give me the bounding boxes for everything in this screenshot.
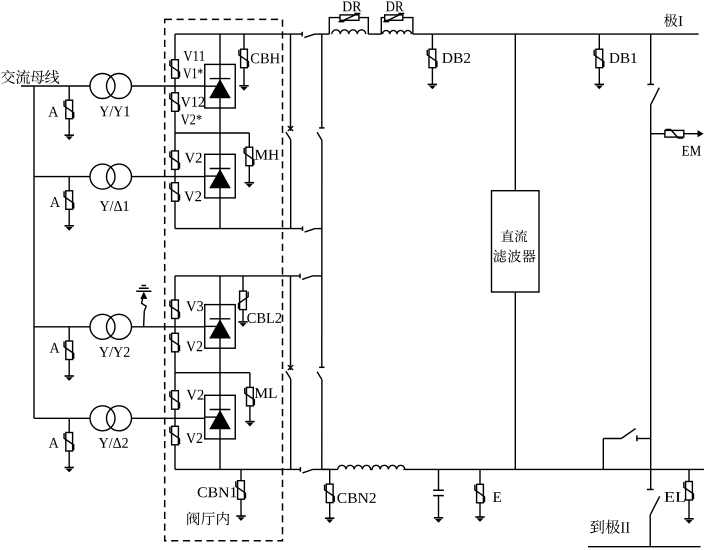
disconnector w/ star (bypass A, group2) [286,364,293,379]
arrester V2 (upper g1) [170,151,180,170]
wire column to V11 [174,34,176,60]
ground (A row 1) [65,135,74,140]
label DR2 [386,2,404,12]
arrester CBN2 [325,484,335,503]
label A row3 [50,343,60,353]
text 到极 [590,520,620,534]
disconnector (bypass branch) [621,429,637,442]
wire V3-V2 (row3 junction) [174,319,176,334]
label CBN2 [337,493,375,503]
ground (DB2) [428,84,437,89]
label ML [255,388,277,398]
wire bypass A to group1 bottom [290,140,292,229]
label V2 (row4 lower) [186,433,202,443]
earthing switch (row 3) [136,286,151,327]
ground (A row 4) [65,468,74,473]
wire to EM transducer [651,133,665,135]
wire switch to bypass bus (g2 top) [312,275,322,277]
wire group2 top line [175,275,300,277]
label V1* [183,68,202,78]
ground (CBN1) [236,516,245,521]
wire bypass A to neutral bus [290,379,292,470]
thyristor valve U2 [205,154,236,198]
wire to arrester DB1 [598,34,600,49]
label Y/Y1 [99,106,129,116]
wire pole II bus [588,546,701,548]
EM transducer (horizontal arrester) [665,130,684,139]
smoothing reactor DR1 [329,14,368,35]
arrester V2 (row4 lower) [170,426,180,445]
wire bypass branch horizontal [603,438,621,440]
wire EM to arrow [684,133,698,135]
arrester V2 (row3) [170,333,180,352]
wire column to V3 [174,276,176,300]
wire DB2 to ground [431,68,433,85]
wire switch to bypass bus [315,228,322,230]
label DR1 [343,2,362,12]
wire bypass A upper [290,34,292,127]
label EM [682,146,701,156]
wire EL to ground [688,500,690,519]
arrester A (row 2) [64,191,74,210]
ground (A row 2) [65,226,74,231]
wire column to neutral line [174,445,176,470]
label EL [665,492,686,502]
ground (DB1) [595,84,604,89]
wire group2 top to valve U3 [219,276,221,305]
label Y/D1 [100,201,129,211]
wire to arrester A4 [68,418,70,432]
wire bypass B upper [321,34,323,128]
wire to arrester CBL2 [242,276,244,291]
text 极 (pole) [664,14,678,27]
ground (A row 3) [65,376,74,381]
label V2* [181,115,202,125]
wire valve U3 to mid (g2) [219,348,221,373]
wire DC filter to neutral bus [514,292,516,469]
wire to arrester MH [248,133,250,147]
wire to arrester ML [249,373,251,388]
wire group2 mid line [175,372,250,374]
DC filter box 直流滤波器 [492,191,540,292]
label A row4 [49,438,59,448]
wire V12 to mid line [174,111,176,151]
wire to arrester EL [688,469,690,481]
wire neutral switch to reactor [313,468,338,470]
disconnector (top bus) [302,32,314,38]
ground arrow (MH) [245,183,254,188]
wire V2 to mid line (g2) [174,352,176,391]
ground (EL) [684,519,693,524]
wire row2 transformer to valve V2 [132,176,205,178]
valve hall dashed enclosure [165,19,283,540]
wire column to group1 bottom [174,201,176,228]
label A row2 [50,197,60,207]
label V11 [184,51,205,61]
label V2 (row4 upper) [186,390,203,400]
wire to arrester A1 [68,86,70,100]
wire to arrester DB2 [431,34,433,49]
wire bypass bus to CBN2 branch [322,468,330,470]
wire to arrester CBH [243,34,245,49]
ground arrow (ML) [245,422,254,427]
disconnector (pole line) [647,84,659,104]
disconnector (group2 top) [300,274,312,280]
wire to arrester A3 [68,327,70,341]
wire V2-V2 (row2 junction) [174,169,176,182]
arrester V11 [170,60,180,78]
arrester A (row 1) [64,100,74,119]
wire arrester A2 to ground [68,209,70,226]
wire bypass B to neutral bus [321,380,323,470]
ground (E) [475,517,484,522]
label CBL2 [247,313,281,323]
ground (capacitor) [434,518,443,523]
wire top bus to valve U1 [219,34,221,64]
label E [493,492,501,502]
ground arrow (CBH) [239,86,248,91]
wire DB1 to ground [598,68,600,85]
text 交流母线 [1,70,59,84]
label CBN1 [198,487,237,497]
wire group1 mid line [175,132,249,134]
arrester V3 [170,300,180,319]
label V2 (g1 lower) [184,191,201,201]
wire arrester A3 to ground [68,360,70,377]
wire V2-V2 (row4 junction) [174,409,176,426]
text 阀厅内 [187,512,229,526]
wire neutral bus from valve group 2 [175,468,300,470]
transformer Y/Y1 [90,74,132,99]
wire valve U4 to neutral line [219,439,221,470]
wire ML down [249,406,251,422]
arrester CBH [239,49,249,67]
arrester CBN1 [236,481,246,500]
label DB1 [609,53,636,63]
text 直流 [501,230,527,243]
label DB2 [442,53,470,63]
wire mid to valve U4 [219,373,221,396]
label V2 (row3) [186,341,202,351]
wire MH down [248,166,250,183]
label Y/D2 [99,438,128,448]
wire top bus switch to DR1 [314,33,329,35]
wire to arrester CBN1 [240,469,242,480]
thyristor valve U4 [205,395,236,439]
arrester A (row 3) [64,341,74,360]
wire AC row3 to transformer [34,326,90,328]
wire CBH down [243,68,245,86]
label V12 [181,97,204,107]
wire to arrester CBN2 [329,469,331,484]
wire arrester A4 to ground [68,451,70,468]
wire bypass A lower [290,276,292,367]
wire group1 bottom line [175,228,303,230]
disconnector w/ star (bypass A, group1) [286,125,293,140]
disconnector (to pole II) [647,490,660,515]
wire CBN1 to ground [240,499,242,516]
transformer Y/Y2 [90,314,132,339]
label A row1 [48,107,58,117]
wire arrester A1 to ground [68,119,70,136]
label pole I numeral [679,16,683,26]
wire to arrester A2 [68,177,70,191]
wire AC row1 to transformer Y/Y1 [21,85,90,87]
wire AC row4 to transformer [34,417,90,419]
wire top bus from valve group 1 [175,33,302,35]
arrester MH [244,147,254,166]
wire top bus to DC filter [514,34,516,191]
wire left AC vertical bus [33,86,35,418]
smoothing reactor DR2 [381,14,413,35]
label MH [255,150,279,160]
label CBH [251,53,280,63]
wire CBN2 to ground [329,503,331,519]
arrester CBL2 [239,291,249,310]
capacitor (neutral bus) [433,469,444,517]
wire neutral bus to right edge [403,468,704,470]
wire row4 transformer to valve V4 [132,417,205,419]
label V2 (g1 upper) [185,153,202,163]
wire bypass B middle [321,140,323,367]
thyristor valve U3 [205,305,236,349]
disconnector (neutral bus) [300,467,312,473]
wire CBL2 down [242,310,244,322]
arrester V2 (lower g1) [170,183,180,202]
label V3 [186,301,203,311]
wire to pole II bus [649,515,651,547]
arrester DB1 [594,49,604,67]
neutral bus reactor coil [338,465,405,469]
text 滤波器 [493,250,535,263]
arrester V12 [170,93,180,112]
wire pole line down [650,105,652,490]
label Y/Y2 [99,347,129,357]
thyristor valve U1 (V11/V12) [205,64,236,108]
wire pole I to disconnector [650,34,652,84]
arrester DB2 [427,49,437,67]
wire row1 transformer to valve V1 [132,85,205,87]
wire DR1 to DR2 [368,33,381,35]
arrester A (row 4) [64,433,74,452]
wire to arrester E [479,469,481,484]
wire valve U1 to valve U2 [219,108,221,154]
disconnector (bypass B, group2) [317,367,324,379]
transformer Y/Delta2 [90,406,132,431]
wire AC row2 to transformer [34,176,90,178]
arrester EL [684,482,694,501]
wire row3 transformer to valve V3 [132,326,205,328]
wire V11-V12 (row1 junction) [174,78,176,93]
ground arrow (CBL2) [238,322,247,327]
arrester ML [245,387,255,406]
ground (CBN2) [325,518,334,523]
transformer Y/Delta1 [90,164,132,189]
arrester E [475,484,485,503]
wire E to ground [479,503,481,517]
arrow (EM output) [698,130,704,137]
label pole II numeral [621,522,630,532]
wire top bus pole I [413,33,699,35]
wire valve U2 to group1 bottom [219,198,221,229]
disconnector (group1 bottom) [303,226,315,232]
wire bypass branch up [602,439,604,470]
disconnector (bypass B, group1) [317,128,324,140]
wire bypass branch to pole line [637,438,651,440]
arrester V2 (row4 upper) [170,391,180,410]
